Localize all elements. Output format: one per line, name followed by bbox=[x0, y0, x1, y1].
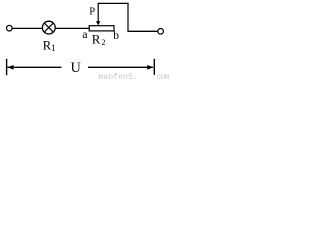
svg-text:1: 1 bbox=[51, 44, 56, 54]
svg-text:a: a bbox=[82, 27, 88, 41]
svg-text:b: b bbox=[113, 30, 119, 42]
svg-text:U: U bbox=[71, 60, 82, 76]
svg-text:manfen5.: manfen5. bbox=[98, 72, 137, 82]
svg-text:com: com bbox=[156, 73, 169, 82]
svg-text:2: 2 bbox=[102, 38, 106, 47]
svg-text:R: R bbox=[92, 32, 101, 47]
svg-text:P: P bbox=[89, 7, 95, 18]
